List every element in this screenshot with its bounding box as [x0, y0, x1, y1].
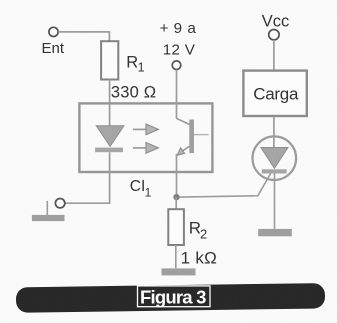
LED cathode bar: [95, 148, 123, 153]
wire Ent to R1: [58, 32, 109, 41]
load box Carga: [243, 71, 306, 116]
SCR cathode bar: [262, 169, 287, 173]
LED of CI1: [96, 126, 124, 147]
wire emitter to node A: [176, 154, 178, 197]
resistor R1: [101, 41, 118, 79]
resistor R2: [168, 209, 184, 245]
light arrow 2: [133, 143, 158, 154]
wire LED cathode down and left to ground terminal: [65, 152, 110, 203]
ground bar SCR: [258, 229, 292, 236]
terminal +12V: [172, 61, 181, 70]
ground bar left: [32, 215, 65, 221]
wire node A to SCR gate: [180, 173, 271, 197]
ground bar R2: [162, 268, 196, 275]
caption inner frame: [138, 286, 211, 307]
op-coupler box CI1: [79, 103, 212, 172]
wire +12V to collector: [176, 70, 178, 119]
wire R1 to LED anode: [109, 80, 111, 126]
wire Vcc to Carga: [273, 40, 275, 71]
light arrow 1: [133, 124, 158, 135]
ground lead left: [46, 201, 48, 215]
wire node A to R2: [175, 197, 177, 209]
SCR triangle: [261, 148, 288, 169]
transistor Q1 base lead: [194, 134, 209, 136]
transistor Q1 emitter arrowhead: [177, 148, 184, 155]
wire SCR cathode to ground: [274, 174, 276, 229]
transistor Q1 collector lead: [177, 118, 190, 124]
SCR circle: [252, 136, 296, 180]
transistor Q1 base bar: [189, 120, 194, 154]
caption bar Figura 3: [16, 283, 325, 313]
transistor Q1 emitter lead: [179, 146, 189, 153]
node A junction: [173, 194, 179, 200]
wire Carga to SCR anode: [273, 116, 275, 148]
terminal Ent: [49, 27, 58, 36]
terminal ground left: [55, 199, 64, 208]
wire R2 to ground: [175, 245, 177, 268]
terminal Vcc: [269, 30, 279, 40]
